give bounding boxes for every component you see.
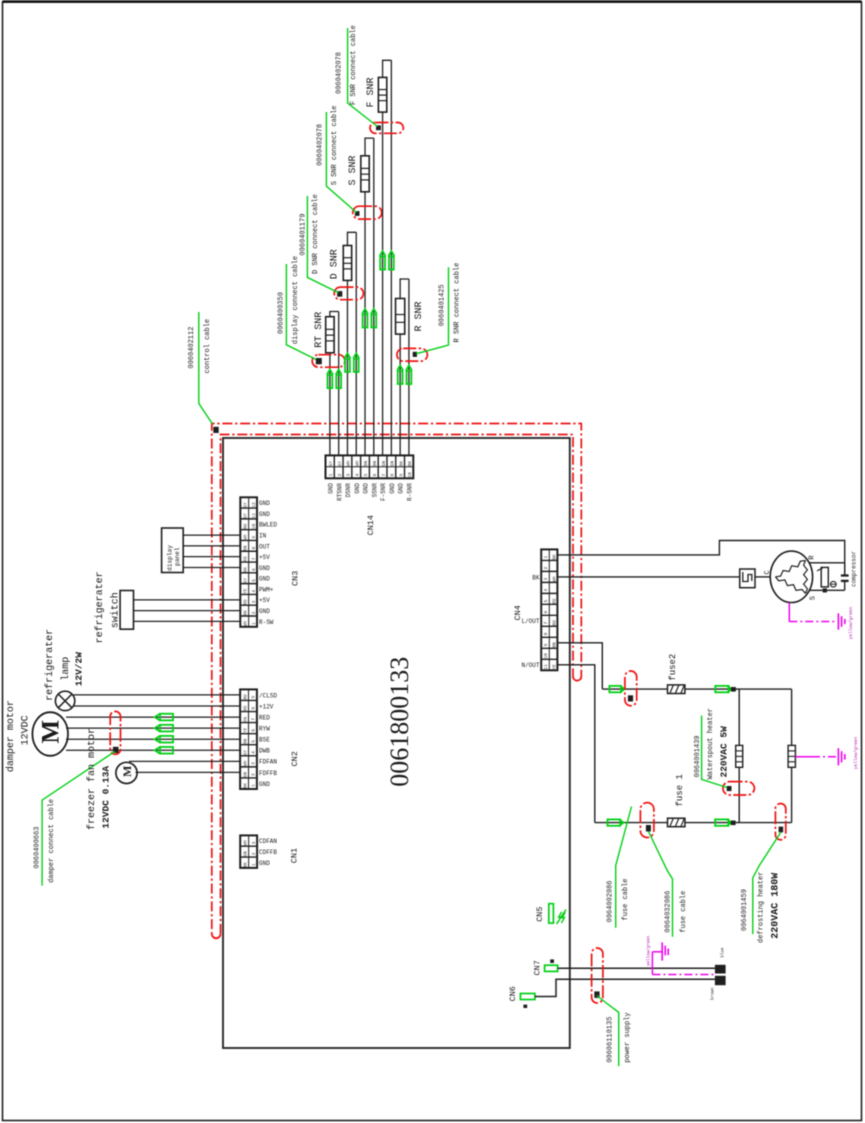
svg-text:GY: GY <box>243 502 248 508</box>
compressor windings <box>775 561 805 577</box>
svg-text:PWM+: PWM+ <box>259 586 274 593</box>
compressor earth (magenta) <box>788 603 790 622</box>
svg-text:8: 8 <box>543 632 549 635</box>
svg-text:refrigerater: refrigerater <box>94 571 106 643</box>
wire compressor R to capacitor node <box>809 562 845 564</box>
wire CN4 pin9 to fuse2 line <box>557 643 602 689</box>
svg-text:IN: IN <box>259 532 267 539</box>
svg-text:defrosting heater: defrosting heater <box>758 872 766 943</box>
svg-text:0060402078: 0060402078 <box>336 52 344 94</box>
damper motor M1 <box>32 712 68 756</box>
fuse2 connector (red) <box>625 671 637 706</box>
svg-text:10: 10 <box>543 653 549 659</box>
F SNR connector (red) <box>370 123 403 134</box>
svg-text:RD: RD <box>243 599 248 605</box>
svg-text:BU: BU <box>243 694 248 700</box>
svg-text:damper motor: damper motor <box>5 700 17 772</box>
svg-text:control cable: control cable <box>204 319 212 374</box>
svg-text:BN: BN <box>243 545 248 551</box>
svg-text:lamp: lamp <box>60 657 72 681</box>
svg-text:WH: WH <box>243 761 248 767</box>
svg-text:S SNR connect cable: S SNR connect cable <box>331 105 339 185</box>
svg-text:BK: BK <box>399 461 404 467</box>
svg-text:GND: GND <box>259 576 270 583</box>
svg-text:7: 7 <box>251 718 257 721</box>
svg-text:RED: RED <box>259 714 270 721</box>
sensor R SNR <box>399 334 401 455</box>
svg-text:11: 11 <box>251 513 257 519</box>
wire marker fuse1 right <box>715 819 728 825</box>
svg-text:CN7: CN7 <box>533 960 543 975</box>
svg-text:CN4: CN4 <box>513 605 523 620</box>
svg-text:RD: RD <box>243 556 248 562</box>
svg-text:D SNR connect cable: D SNR connect cable <box>312 194 320 274</box>
svg-text:R SNR: R SNR <box>414 301 425 331</box>
svg-text:BK: BK <box>243 783 248 789</box>
svg-text:7: 7 <box>543 621 549 624</box>
R SNR connector (red) <box>397 348 428 361</box>
svg-text:BN: BN <box>364 461 369 467</box>
CN6 polarity mark <box>523 1005 527 1008</box>
svg-text:switch: switch <box>110 592 122 628</box>
svg-text:12V/2W: 12V/2W <box>74 652 85 687</box>
svg-text:6: 6 <box>251 568 257 571</box>
svg-text:N/OUT: N/OUT <box>521 662 539 669</box>
wire marker fuse2 left <box>609 686 621 692</box>
svg-text:damper connect cable: damper connect cable <box>48 799 56 883</box>
node: control cable junction square <box>213 427 218 433</box>
svg-text:12VDC: 12VDC <box>21 715 32 745</box>
svg-text:BN: BN <box>552 642 557 648</box>
svg-text:GND: GND <box>389 483 396 494</box>
fuse2 line wire <box>602 688 791 690</box>
damper connector (red) <box>110 711 120 754</box>
svg-text:SSNR: SSNR <box>371 483 378 498</box>
sensor F SNR <box>382 112 384 455</box>
D SNR connector (red) <box>334 287 363 300</box>
svg-text:1: 1 <box>251 863 257 866</box>
waterspout connector (red) <box>723 782 755 795</box>
freezer fan motor M2 <box>116 762 137 783</box>
svg-text:2: 2 <box>251 852 257 855</box>
svg-text:/CLSD: /CLSD <box>259 692 277 699</box>
svg-text:OUT: OUT <box>259 543 270 550</box>
S SNR connector (red) <box>353 206 382 219</box>
svg-text:0060401179: 0060401179 <box>300 214 308 256</box>
wire marker fuse2 right <box>715 686 728 692</box>
display panel box <box>162 528 184 573</box>
svg-text:0060400663: 0060400663 <box>34 827 42 869</box>
svg-text:WH: WH <box>552 576 557 582</box>
svg-text:GND: GND <box>259 608 270 615</box>
svg-text:CN2: CN2 <box>290 751 300 766</box>
svg-text:3: 3 <box>543 577 549 580</box>
wire CN4 pin11 to fuse1 line <box>557 665 594 823</box>
svg-text:BK: BK <box>243 610 248 616</box>
svg-text:GND: GND <box>398 483 405 494</box>
node fuse2-right junction <box>731 687 736 692</box>
svg-text:GND: GND <box>259 781 270 788</box>
wire marker fuse1 left <box>608 819 621 825</box>
compressor motor <box>770 551 812 602</box>
svg-text:2: 2 <box>251 773 257 776</box>
wire marker pair S <box>362 309 368 314</box>
svg-text:CN6: CN6 <box>508 986 518 1001</box>
svg-text:BN: BN <box>243 738 248 744</box>
wires switch to CN3 <box>134 599 241 601</box>
svg-text:BU: BU <box>552 620 557 626</box>
svg-text:CN14: CN14 <box>366 515 376 535</box>
svg-text:S: S <box>810 596 818 600</box>
svg-text:R-SNR: R-SNR <box>407 483 414 501</box>
connector CN14 (10-pin sensor header) <box>326 455 414 478</box>
fuse1 symbol <box>668 818 685 827</box>
svg-text:YE: YE <box>243 588 248 594</box>
svg-text:power supply: power supply <box>624 1012 632 1062</box>
wires freezer fan to CN2 <box>129 760 240 762</box>
wire CN4 pin1 to compressor circuit <box>557 541 844 574</box>
wire compressor S to overload <box>810 589 845 591</box>
svg-text:F-SNR: F-SNR <box>380 483 387 501</box>
svg-text:3: 3 <box>251 841 257 844</box>
svg-text:RD: RD <box>243 705 248 711</box>
svg-text:fuse2: fuse2 <box>668 654 678 681</box>
svg-text:DSNR: DSNR <box>345 483 352 498</box>
svg-text:D SNR: D SNR <box>330 249 341 279</box>
svg-text:10: 10 <box>251 523 257 529</box>
svg-text:4: 4 <box>543 588 549 591</box>
waterspout heater element <box>736 745 743 767</box>
svg-text:BSE: BSE <box>259 737 270 744</box>
svg-text:2: 2 <box>337 473 343 476</box>
svg-text:8: 8 <box>251 546 257 549</box>
svg-text:WH: WH <box>243 840 248 846</box>
fuse1 connector (red) <box>640 803 654 838</box>
svg-text:panel: panel <box>174 547 181 566</box>
svg-text:GY: GY <box>243 577 248 583</box>
svg-text:fuse cable: fuse cable <box>680 891 688 933</box>
svg-text:BU: BU <box>243 523 248 529</box>
power cord terminal blocks <box>715 965 726 974</box>
svg-text:GY: GY <box>329 461 334 467</box>
svg-text:GND: GND <box>259 565 270 572</box>
svg-text:BK: BK <box>552 554 557 560</box>
svg-text:display connect cable: display connect cable <box>292 256 300 344</box>
svg-text:3: 3 <box>251 600 257 603</box>
svg-text:FDFFB: FDFFB <box>259 770 277 777</box>
svg-text:WH: WH <box>243 534 248 540</box>
sensor D SNR <box>346 280 348 455</box>
svg-text:brown: brown <box>711 987 716 1000</box>
CN7 polarity mark <box>550 959 554 963</box>
svg-text:1: 1 <box>328 473 334 476</box>
svg-text:yellow/green: yellow/green <box>853 736 859 769</box>
connector CN6 (green) <box>520 994 535 1000</box>
svg-text:220VAC 5W: 220VAC 5W <box>719 726 730 778</box>
svg-text:WH: WH <box>347 461 352 467</box>
svg-text:BK: BK <box>243 862 248 868</box>
svg-text:GN: GN <box>391 461 396 467</box>
svg-text:BK: BK <box>532 574 540 581</box>
wires damper motor to CN2 <box>66 716 240 718</box>
svg-text:12: 12 <box>251 502 257 508</box>
svg-text:0064032086: 0064032086 <box>665 891 673 933</box>
overload protector <box>821 567 828 587</box>
wires display panel to CN3 <box>183 534 240 536</box>
svg-text:RD: RD <box>552 598 557 604</box>
svg-text:1: 1 <box>251 622 257 625</box>
fuse1 line wire <box>595 822 792 824</box>
svg-text:12VDC 0.13A: 12VDC 0.13A <box>101 766 112 829</box>
svg-text:9: 9 <box>398 473 404 476</box>
svg-text:00606110135: 00606110135 <box>607 1017 615 1063</box>
wire CN7 to power cord <box>558 967 715 969</box>
svg-text:GN: GN <box>382 461 387 467</box>
svg-text:7: 7 <box>381 473 387 476</box>
svg-text:BWLED: BWLED <box>259 522 277 529</box>
svg-text:11: 11 <box>543 664 549 670</box>
svg-text:9: 9 <box>543 643 549 646</box>
svg-text:GND: GND <box>259 511 270 518</box>
svg-text:0064001459: 0064001459 <box>741 889 749 931</box>
svg-text:4: 4 <box>354 473 360 476</box>
svg-text:0060401425: 0060401425 <box>438 284 446 326</box>
svg-text:BK: BK <box>243 567 248 573</box>
svg-text:2: 2 <box>543 566 549 569</box>
svg-text:4: 4 <box>251 590 257 593</box>
svg-text:RT SNR: RT SNR <box>314 312 325 348</box>
connector CN1 (3-pin) <box>240 835 257 868</box>
svg-text:fuse 1: fuse 1 <box>675 774 685 806</box>
svg-text:2: 2 <box>251 611 257 614</box>
svg-text:F SNR connect cable: F SNR connect cable <box>350 25 358 105</box>
svg-text:GN: GN <box>243 851 248 857</box>
wire marker pair R <box>397 365 403 370</box>
sensor S SNR <box>364 192 366 456</box>
svg-text:6: 6 <box>543 610 549 613</box>
RT SNR connector (red) <box>312 355 345 368</box>
svg-text:220VAC 180W: 220VAC 180W <box>771 873 782 939</box>
main control board outline <box>223 438 570 1048</box>
wire markers damper wires <box>155 714 160 720</box>
fuse2 symbol <box>668 685 685 694</box>
svg-text:10: 10 <box>407 472 413 478</box>
svg-text:CN5: CN5 <box>535 906 545 921</box>
svg-text:BN: BN <box>373 461 378 467</box>
svg-text:L/OUT: L/OUT <box>521 618 539 625</box>
svg-text:BK: BK <box>408 461 413 467</box>
svg-text:S SNR: S SNR <box>348 155 359 185</box>
svg-text:4: 4 <box>251 751 257 754</box>
wire PTC to compressor C <box>755 576 770 578</box>
svg-text:0061800133: 0061800133 <box>385 657 414 787</box>
svg-text:OG: OG <box>243 716 248 722</box>
svg-text:5: 5 <box>251 579 257 582</box>
wire marker pair D <box>345 353 351 358</box>
svg-text:Waterspout heater: Waterspout heater <box>707 708 715 779</box>
connector CN4 (11-pin power) <box>541 549 557 670</box>
wire marker pair F <box>380 251 386 256</box>
svg-text:9: 9 <box>251 696 257 699</box>
waterspout heater branch wire <box>738 689 740 823</box>
svg-text:5: 5 <box>543 599 549 602</box>
power earth (magenta) <box>652 951 662 953</box>
connector CN2 (9-pin) <box>240 689 257 789</box>
svg-text:0060402112: 0060402112 <box>188 327 196 369</box>
svg-text:0064001439: 0064001439 <box>694 735 702 777</box>
svg-text:GY: GY <box>243 513 248 519</box>
svg-text:display: display <box>166 545 173 571</box>
svg-text:M: M <box>120 766 134 777</box>
defrost heater earth (magenta) <box>795 756 812 758</box>
svg-text:8: 8 <box>390 473 396 476</box>
CN5 no-connect squiggle <box>557 910 567 925</box>
svg-text:CN1: CN1 <box>290 848 300 863</box>
svg-text:0060400350: 0060400350 <box>278 292 286 334</box>
wire CN4 pin3 to PTC starter <box>557 576 739 578</box>
svg-text:GND: GND <box>259 500 270 507</box>
svg-text:R SNR connect cable: R SNR connect cable <box>454 263 462 343</box>
svg-text:F SNR: F SNR <box>366 77 377 107</box>
connector CN7 (green) <box>545 965 558 971</box>
svg-text:refrigerater: refrigerater <box>44 629 56 701</box>
svg-text:3: 3 <box>251 762 257 765</box>
svg-text:GN: GN <box>243 772 248 778</box>
connector CN3 (12-pin) <box>240 497 257 627</box>
refrigerater lamp symbol <box>55 691 74 710</box>
svg-text:9: 9 <box>251 536 257 539</box>
svg-text:1: 1 <box>251 784 257 787</box>
svg-text:DWB: DWB <box>259 748 270 755</box>
refrigerater switch box <box>120 591 133 630</box>
svg-text:YE: YE <box>552 664 557 670</box>
PTC starter box <box>740 569 755 588</box>
run capacitor <box>841 574 849 576</box>
svg-text:+12V: +12V <box>259 703 274 710</box>
svg-text:R: R <box>809 555 817 560</box>
wires lamp to CN2 <box>74 694 241 696</box>
svg-text:GND: GND <box>354 483 361 494</box>
svg-text:0060402078: 0060402078 <box>317 124 325 166</box>
svg-text:8: 8 <box>251 707 257 710</box>
svg-text:WH: WH <box>355 461 360 467</box>
svg-text:compressor: compressor <box>851 550 858 586</box>
svg-text:5: 5 <box>251 740 257 743</box>
svg-text:CDFFB: CDFFB <box>259 849 277 856</box>
svg-text:yellow/green: yellow/green <box>848 606 854 639</box>
svg-text:RTSNR: RTSNR <box>336 483 343 501</box>
svg-text:3: 3 <box>346 473 352 476</box>
svg-text:+5V: +5V <box>259 554 270 561</box>
svg-text:YE: YE <box>243 727 248 733</box>
svg-text:6: 6 <box>372 473 378 476</box>
svg-text:RYW: RYW <box>259 726 270 733</box>
svg-text:+5V: +5V <box>259 597 270 604</box>
svg-text:1: 1 <box>543 555 549 558</box>
svg-text:C: C <box>764 570 772 574</box>
svg-text:GY: GY <box>243 749 248 755</box>
node overload-S junction <box>823 588 827 592</box>
svg-text:yellow/green: yellow/green <box>647 935 652 966</box>
right vertical wire fuse2-to-fuse1 <box>791 689 793 823</box>
svg-text:GND: GND <box>363 483 370 494</box>
svg-text:7: 7 <box>251 557 257 560</box>
svg-text:GND: GND <box>328 483 335 494</box>
svg-text:M: M <box>38 720 65 744</box>
svg-text:R-SW: R-SW <box>259 619 274 626</box>
svg-text:5: 5 <box>363 473 369 476</box>
svg-text:WH: WH <box>243 621 248 627</box>
svg-text:CDFAN: CDFAN <box>259 838 277 845</box>
sensor RT SNR (thermistor) <box>329 353 331 456</box>
red loop solid end arcs <box>212 934 221 938</box>
svg-text:0064002086: 0064002086 <box>607 880 615 922</box>
connector CN5 (green) <box>549 904 554 923</box>
svg-text:6: 6 <box>251 729 257 732</box>
svg-text:GND: GND <box>259 860 270 867</box>
wire marker pair RT <box>327 370 333 375</box>
svg-text:fuse cable: fuse cable <box>622 878 630 920</box>
node fuse1-right junction <box>731 821 736 826</box>
svg-text:CN3: CN3 <box>291 571 301 586</box>
svg-text:freezer fan motor: freezer fan motor <box>86 728 98 830</box>
svg-text:FDFAN: FDFAN <box>259 759 277 766</box>
svg-text:GY: GY <box>338 461 343 467</box>
power cable connector (red) <box>592 948 603 1003</box>
red dash-dot control cable loop <box>212 424 582 939</box>
svg-text:blue: blue <box>721 947 726 958</box>
wire CN6 to power cord <box>535 979 715 996</box>
defrost heater connector (red) <box>775 804 785 840</box>
defrosting heater element <box>788 745 795 767</box>
